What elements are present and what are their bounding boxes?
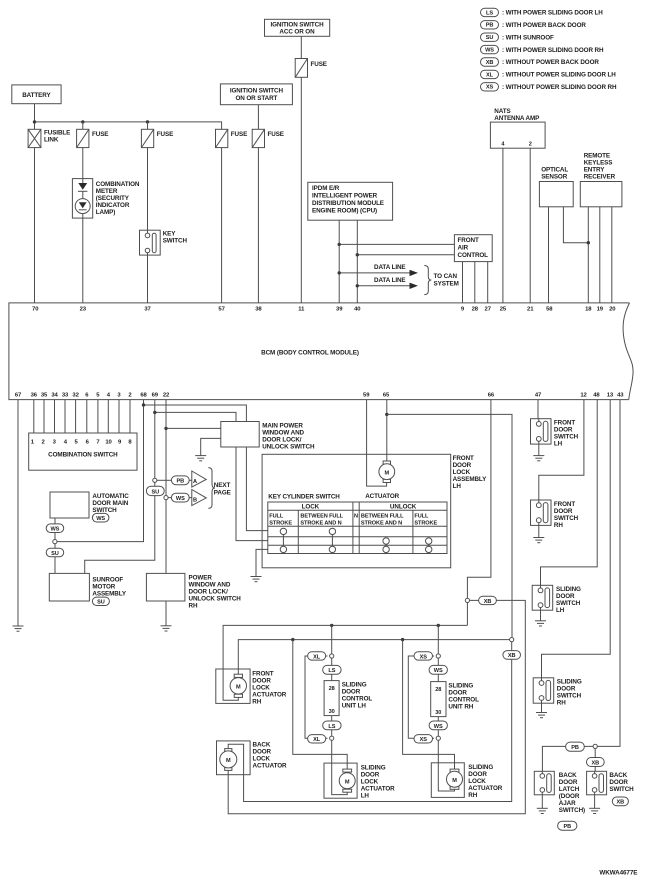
svg-text:LH: LH xyxy=(554,441,563,448)
svg-text:RECEIVER: RECEIVER xyxy=(584,174,616,181)
junction battery bus xyxy=(33,120,36,123)
junction 68 xyxy=(142,403,145,406)
svg-text:STROKE: STROKE xyxy=(269,521,292,527)
brace NEXT PAGE xyxy=(208,468,230,509)
wire 66 xyxy=(467,400,491,599)
svg-text:WINDOW AND: WINDOW AND xyxy=(189,581,231,588)
power window and door lock/unlock switch RH box xyxy=(146,573,241,609)
junction 39 xyxy=(338,243,341,246)
svg-text:CONTROL: CONTROL xyxy=(458,252,489,259)
IPDM E/R box xyxy=(308,182,393,220)
wire ign ACC to fuse xyxy=(300,36,302,58)
svg-text:DOOR LOCK/: DOOR LOCK/ xyxy=(262,436,302,443)
svg-text:CONTROL: CONTROL xyxy=(448,696,479,703)
svg-text:XB: XB xyxy=(486,60,494,66)
svg-text:DATA LINE: DATA LINE xyxy=(374,277,406,284)
svg-text:(DOOR: (DOOR xyxy=(559,793,580,800)
svg-text:OPTICAL: OPTICAL xyxy=(541,167,568,174)
svg-text:ACTUATOR: ACTUATOR xyxy=(252,691,286,698)
svg-text:: WITHOUT POWER SLIDING DOOR R: : WITHOUT POWER SLIDING DOOR RH xyxy=(502,84,617,91)
wire 69 xyxy=(85,400,155,574)
wire 4 to comb sw 10 xyxy=(107,400,109,433)
svg-text:: WITHOUT POWER SLIDING DOOR L: : WITHOUT POWER SLIDING DOOR LH xyxy=(502,72,616,79)
svg-text:ANTENNA AMP: ANTENNA AMP xyxy=(494,115,539,122)
svg-text:30: 30 xyxy=(435,710,441,716)
wire auto door switch down xyxy=(54,518,56,573)
svg-text:CONTROL: CONTROL xyxy=(342,695,373,702)
oval WS label (auto door switch) xyxy=(92,513,109,522)
svg-text:FUSE: FUSE xyxy=(231,131,247,138)
svg-text:LAMP): LAMP) xyxy=(96,209,115,216)
svg-text:TO CAN: TO CAN xyxy=(434,273,458,280)
back door switch xyxy=(587,771,635,795)
svg-text:MOTOR: MOTOR xyxy=(92,583,115,590)
svg-text:34: 34 xyxy=(51,393,58,399)
svg-text:INDICATOR: INDICATOR xyxy=(96,202,130,209)
oval SU on wire 69 xyxy=(146,486,164,495)
optical sensor xyxy=(539,167,573,207)
svg-text:: WITH POWER SLIDING DOOR LH: : WITH POWER SLIDING DOOR LH xyxy=(502,10,603,17)
svg-text:XS: XS xyxy=(486,85,494,91)
ground back door latch xyxy=(537,808,548,813)
wire 9 xyxy=(462,262,464,303)
legend row XB xyxy=(481,58,600,66)
svg-text:BACK: BACK xyxy=(609,772,627,779)
wire 67 xyxy=(17,400,19,626)
svg-text:XS: XS xyxy=(420,654,428,660)
front air control box xyxy=(454,235,492,262)
junction bus fuse2 xyxy=(81,120,84,123)
ground sliding door switch LH xyxy=(535,621,546,626)
svg-text:ENGINE ROOM) (CPU): ENGINE ROOM) (CPU) xyxy=(312,208,377,215)
oval SU on wire xyxy=(46,548,64,557)
wire back door latch ground xyxy=(541,795,543,809)
svg-text:SWITCH: SWITCH xyxy=(556,600,581,607)
svg-text:35: 35 xyxy=(41,393,48,399)
oval XS upper xyxy=(414,652,433,661)
svg-text:2: 2 xyxy=(529,142,532,148)
svg-text:39: 39 xyxy=(336,307,343,313)
svg-text:AUTOMATIC: AUTOMATIC xyxy=(92,493,129,500)
wire control unit RH chain xyxy=(437,625,439,681)
svg-text:SU: SU xyxy=(152,490,160,496)
wire 65 xyxy=(386,400,388,461)
front door lock actuator RH xyxy=(216,669,287,705)
front door switch RH xyxy=(531,500,579,529)
wire 3 to comb sw 9 xyxy=(118,400,120,433)
svg-text:FRONT: FRONT xyxy=(554,501,575,508)
svg-text:BACK: BACK xyxy=(559,772,577,779)
svg-text:LH: LH xyxy=(453,483,462,490)
svg-text:WS: WS xyxy=(434,724,443,730)
wire 38 xyxy=(257,148,259,303)
svg-text:KEYLESS: KEYLESS xyxy=(584,160,613,167)
contact circle row2 col4 xyxy=(426,538,432,544)
svg-text:BETWEEN FULL: BETWEEN FULL xyxy=(300,513,343,519)
wire 13 to sliding door switch RH xyxy=(542,400,611,678)
wire front door switch RH ground xyxy=(538,525,540,537)
svg-text:WS: WS xyxy=(176,496,185,502)
connector circle RH lower xyxy=(436,736,440,740)
wire node B down through XB xyxy=(228,642,512,802)
svg-text:19: 19 xyxy=(597,307,604,313)
next page connector A xyxy=(189,471,206,487)
battery xyxy=(12,85,61,104)
contact circle row1 col1 xyxy=(280,528,286,534)
wire 68 xyxy=(57,400,144,542)
svg-text:23: 23 xyxy=(80,307,87,313)
svg-text:METER: METER xyxy=(96,188,118,195)
svg-text:28: 28 xyxy=(472,307,479,313)
wire node C left through PB xyxy=(542,746,593,771)
svg-text:PB: PB xyxy=(564,824,572,830)
wire 48 to sliding door switch LH xyxy=(541,400,598,586)
svg-text:XB: XB xyxy=(508,653,516,659)
svg-text:UNLOCK SWITCH: UNLOCK SWITCH xyxy=(262,443,315,450)
connector circle LH upper xyxy=(330,654,334,658)
NATS antenna amp xyxy=(490,108,545,148)
wire 39 xyxy=(338,220,340,303)
remote keyless entry receiver xyxy=(580,153,622,207)
svg-text:11: 11 xyxy=(298,307,305,313)
svg-text:ACTUATOR: ACTUATOR xyxy=(361,785,395,792)
junction 40 xyxy=(356,253,359,256)
data line 1 arrow xyxy=(339,264,418,276)
svg-text:FRONT: FRONT xyxy=(554,420,575,427)
oval XB (node A) xyxy=(479,596,497,605)
wire 22 xyxy=(165,400,167,574)
svg-text:(SECURITY: (SECURITY xyxy=(96,195,130,202)
svg-text:INTELLIGENT POWER: INTELLIGENT POWER xyxy=(312,193,378,200)
svg-text:XB: XB xyxy=(484,599,492,605)
junction 65 xyxy=(385,413,388,416)
svg-text:REMOTE: REMOTE xyxy=(584,153,610,160)
wire bus to fuse3 xyxy=(147,122,149,129)
svg-text:DOOR: DOOR xyxy=(361,771,380,778)
contact circle row3 col4 xyxy=(426,546,432,552)
svg-text:SLIDING: SLIDING xyxy=(448,682,473,689)
svg-text:FUSE: FUSE xyxy=(268,131,284,138)
wire 23 xyxy=(82,148,84,303)
svg-text:IGNITION SWITCH: IGNITION SWITCH xyxy=(270,22,324,29)
svg-text:10: 10 xyxy=(105,440,112,446)
svg-text:LOCK: LOCK xyxy=(468,778,486,785)
key cylinder switch table xyxy=(268,502,447,554)
svg-text:DOOR: DOOR xyxy=(556,593,575,600)
svg-text:FULL: FULL xyxy=(414,513,429,519)
svg-text:DOOR: DOOR xyxy=(609,779,628,786)
svg-text:LS: LS xyxy=(328,668,335,674)
svg-text:57: 57 xyxy=(218,307,225,313)
svg-text:DOOR: DOOR xyxy=(253,748,272,755)
svg-text:SU: SU xyxy=(486,35,494,41)
fuse F4 (wire 57) xyxy=(216,129,248,147)
svg-text:LATCH: LATCH xyxy=(559,786,580,793)
actuator motor (assembly LH) xyxy=(365,461,399,500)
wire 34 to comb sw 3 xyxy=(54,400,56,433)
wire to WS oval xyxy=(168,497,171,499)
svg-text:: WITHOUT POWER BACK DOOR: : WITHOUT POWER BACK DOOR xyxy=(502,59,599,66)
oval WS on wire xyxy=(46,524,64,533)
wire power window RH to ground xyxy=(165,601,167,626)
back door latch (door ajar switch) xyxy=(534,771,585,814)
sliding door lock actuator RH xyxy=(431,763,502,799)
wire node A right through XB xyxy=(228,600,525,813)
svg-text:N: N xyxy=(354,513,358,519)
junction bus upper LH xyxy=(330,624,333,627)
svg-text:XB: XB xyxy=(617,800,625,806)
svg-text:SU: SU xyxy=(97,600,105,606)
svg-text:DATA LINE: DATA LINE xyxy=(374,264,406,271)
svg-text:59: 59 xyxy=(363,393,370,399)
svg-text:LOCK: LOCK xyxy=(252,684,270,691)
svg-text:M: M xyxy=(226,758,231,764)
svg-text:28: 28 xyxy=(329,686,335,692)
wire control unit LH chain xyxy=(331,625,333,680)
wire 58 xyxy=(548,207,550,303)
fuse F3 xyxy=(141,129,173,147)
wire 18 xyxy=(587,207,589,303)
svg-text:SWITCH: SWITCH xyxy=(92,507,117,514)
svg-text:37: 37 xyxy=(144,307,151,313)
key switch xyxy=(140,230,188,255)
svg-text:COMBINATION SWITCH: COMBINATION SWITCH xyxy=(48,452,118,459)
wire NATS 4 to 25 xyxy=(502,148,504,303)
wire 40 to front air control xyxy=(357,254,454,256)
wire 43 xyxy=(597,400,620,747)
wire NATS 2 to 21 xyxy=(529,148,531,303)
oval PB label (latch) xyxy=(558,821,577,830)
svg-text:M: M xyxy=(345,779,350,785)
ignition switch ON OR START box xyxy=(220,84,292,105)
wire 27 xyxy=(487,262,489,303)
connector circle node B xyxy=(510,638,514,642)
svg-text:FUSE: FUSE xyxy=(157,131,173,138)
svg-text:22: 22 xyxy=(163,393,170,399)
svg-text:ACTUATOR: ACTUATOR xyxy=(468,785,502,792)
wire key cyl row3 to ground xyxy=(256,549,268,576)
connector circle RH upper xyxy=(436,654,440,658)
svg-text:NEXT: NEXT xyxy=(214,482,231,489)
oval XL lower xyxy=(308,735,326,744)
junction bus fuse3 xyxy=(146,120,149,123)
svg-text:WS: WS xyxy=(96,516,105,522)
svg-text:FUSE: FUSE xyxy=(311,61,327,68)
svg-text:FRONT: FRONT xyxy=(458,237,479,244)
svg-text:DOOR: DOOR xyxy=(468,771,487,778)
wire 33 to comb sw 4 xyxy=(64,400,66,433)
oval WS xyxy=(171,493,189,502)
oval XB (node B) xyxy=(503,651,521,660)
svg-text:BCM (BODY CONTROL MODULE): BCM (BODY CONTROL MODULE) xyxy=(261,350,359,357)
front door lock assembly LH outer box xyxy=(262,454,487,568)
junction bus upper RH xyxy=(437,624,440,627)
svg-text:M: M xyxy=(452,778,457,784)
svg-text:: WITH POWER SLIDING DOOR RH: : WITH POWER SLIDING DOOR RH xyxy=(502,47,604,54)
wire front door switch LH ground xyxy=(538,444,540,456)
wire 28 xyxy=(474,262,476,303)
sliding door lock actuator LH xyxy=(324,763,395,799)
svg-text:BATTERY: BATTERY xyxy=(22,92,51,99)
ground front door switch LH xyxy=(533,456,544,461)
svg-text:SLIDING: SLIDING xyxy=(342,681,367,688)
svg-text:LS: LS xyxy=(328,724,335,730)
svg-text:ACC OR ON: ACC OR ON xyxy=(279,29,315,36)
svg-text:A: A xyxy=(193,479,197,485)
fuse F2 xyxy=(77,129,109,147)
wire bus to fuse2 xyxy=(82,122,84,129)
wire 20 xyxy=(611,207,613,303)
wire battery to bus xyxy=(34,104,36,130)
wire 37 xyxy=(147,148,149,303)
svg-text:66: 66 xyxy=(488,393,495,399)
svg-text:RH: RH xyxy=(557,700,566,707)
wire optical to 18 xyxy=(563,207,588,243)
junction data1 xyxy=(338,271,341,274)
ignition switch ACC OR ON box xyxy=(265,19,330,36)
junction 22 xyxy=(164,427,167,430)
contact circle row3 col3 xyxy=(383,546,389,552)
svg-text:SWITCH: SWITCH xyxy=(554,434,579,441)
svg-text:70: 70 xyxy=(32,307,39,313)
svg-text:SU: SU xyxy=(51,551,59,557)
svg-text:KEY CYLINDER SWITCH: KEY CYLINDER SWITCH xyxy=(268,494,340,501)
svg-text:RH: RH xyxy=(252,698,261,705)
svg-text:UNIT LH: UNIT LH xyxy=(342,702,367,709)
svg-text:13: 13 xyxy=(607,393,614,399)
svg-text:27: 27 xyxy=(485,307,492,313)
wire 36 to comb sw 1 xyxy=(33,400,35,433)
svg-text:38: 38 xyxy=(255,307,262,313)
svg-text:DOOR: DOOR xyxy=(559,779,578,786)
svg-text:69: 69 xyxy=(152,393,159,399)
svg-text:ACTUATOR: ACTUATOR xyxy=(253,762,287,769)
svg-text:SUNROOF: SUNROOF xyxy=(92,576,123,583)
svg-text:B: B xyxy=(193,498,197,504)
svg-text:48: 48 xyxy=(593,393,600,399)
svg-text:WS: WS xyxy=(485,48,494,54)
svg-text:LINK: LINK xyxy=(44,136,59,143)
svg-text:DOOR: DOOR xyxy=(448,689,467,696)
wire 68 branch to main switch xyxy=(144,405,247,422)
legend row XL xyxy=(481,70,617,78)
sliding door switch LH xyxy=(532,585,581,614)
wire 59 xyxy=(367,400,387,487)
wire sliding door switch RH ground xyxy=(541,703,543,712)
wire 19 xyxy=(599,207,601,303)
svg-text:XL: XL xyxy=(486,72,494,78)
wire bus lower to sliding actuator LH xyxy=(293,640,347,770)
wire bus lower xyxy=(238,640,509,675)
wire 57 xyxy=(221,148,223,303)
svg-text:AJAR: AJAR xyxy=(559,800,576,807)
svg-text:NATS: NATS xyxy=(494,108,510,115)
svg-text:DOOR LOCK/: DOOR LOCK/ xyxy=(189,588,229,595)
svg-text:67: 67 xyxy=(15,393,22,399)
next page connector B xyxy=(189,490,206,506)
svg-text:LH: LH xyxy=(556,607,565,614)
contact link col1 xyxy=(282,531,284,549)
oval LS upper xyxy=(323,665,341,674)
svg-text:STROKE AND N: STROKE AND N xyxy=(361,521,402,527)
svg-text:25: 25 xyxy=(500,307,507,313)
junction 69 xyxy=(153,411,156,414)
svg-text:WINDOW AND: WINDOW AND xyxy=(262,429,304,436)
svg-text:PAGE: PAGE xyxy=(214,490,231,497)
XL bypass LH xyxy=(305,656,328,738)
svg-text:KEY: KEY xyxy=(163,231,177,238)
contact circle row3 col1 xyxy=(280,546,286,552)
svg-text:DOOR: DOOR xyxy=(554,427,573,434)
svg-text:LOCK: LOCK xyxy=(302,504,320,511)
wire 69 branch to main switch xyxy=(155,412,236,421)
svg-text:: WITH SUNROOF: : WITH SUNROOF xyxy=(502,34,554,41)
wire supply bus xyxy=(35,122,222,129)
combination switch box xyxy=(29,433,137,470)
svg-text:XB: XB xyxy=(592,760,600,766)
legend row LS xyxy=(481,8,604,16)
junction bus lower RH xyxy=(401,638,404,641)
sunroof motor assembly box xyxy=(49,573,127,601)
sliding door switch RH xyxy=(533,678,582,707)
connector circle node C xyxy=(593,744,597,748)
connector circle (wire 68 join) xyxy=(53,540,57,544)
svg-text:LS: LS xyxy=(486,10,493,16)
svg-text:36: 36 xyxy=(31,393,38,399)
svg-text:33: 33 xyxy=(62,393,69,399)
svg-text:POWER: POWER xyxy=(189,574,213,581)
BCM body control module box xyxy=(9,303,633,400)
contact link col2 xyxy=(331,531,333,549)
wire ign ON to fuse xyxy=(257,105,259,130)
wire node A down to bus xyxy=(466,603,468,626)
wire control unit LH pin30 down xyxy=(332,716,348,795)
svg-text:RH: RH xyxy=(189,602,198,609)
wire node C down through XB xyxy=(594,749,596,772)
combination meter (security indicator lamp) xyxy=(72,179,140,219)
contact circle row1 col2 xyxy=(329,528,335,534)
svg-text:43: 43 xyxy=(617,393,624,399)
svg-text:DOOR: DOOR xyxy=(252,677,271,684)
brace to CAN system xyxy=(424,266,458,295)
svg-text:ENTRY: ENTRY xyxy=(584,167,606,174)
svg-text:DOOR: DOOR xyxy=(342,688,361,695)
svg-text:47: 47 xyxy=(535,393,542,399)
svg-text:: WITH POWER BACK DOOR: : WITH POWER BACK DOOR xyxy=(502,22,586,29)
svg-text:SWITCH: SWITCH xyxy=(554,515,579,522)
svg-text:WKWA4677E: WKWA4677E xyxy=(599,870,637,877)
ground main switch xyxy=(195,456,206,461)
wire 2 to comb sw 8 xyxy=(129,400,131,433)
svg-text:SLIDING: SLIDING xyxy=(556,586,581,593)
wire 35 to comb sw 2 xyxy=(43,400,45,433)
svg-text:WS: WS xyxy=(50,527,59,533)
automatic door main switch box xyxy=(50,492,129,518)
contact circle row3 col2 xyxy=(329,546,335,552)
ground back door switch xyxy=(589,808,600,813)
oval LS lower xyxy=(323,721,341,730)
svg-text:ASSEMBLY: ASSEMBLY xyxy=(92,590,127,597)
wire main switch to ground xyxy=(201,438,221,455)
wire sliding door switch LH ground xyxy=(540,610,542,621)
oval PB (node C) xyxy=(566,742,585,751)
legend row XS xyxy=(481,83,617,91)
svg-text:SWITCH: SWITCH xyxy=(557,693,582,700)
svg-text:PB: PB xyxy=(486,23,494,29)
svg-text:FUSE: FUSE xyxy=(92,131,108,138)
contact circle row2 col3 xyxy=(383,538,389,544)
sliding door control unit LH box xyxy=(324,681,372,716)
